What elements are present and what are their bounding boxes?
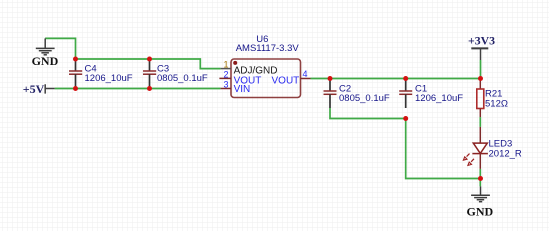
- capacitor C3: [143, 59, 208, 89]
- svg-text:4: 4: [303, 69, 308, 79]
- svg-text:VIN: VIN: [234, 84, 251, 95]
- svg-text:AMS1117-3.3V: AMS1117-3.3V: [236, 43, 300, 54]
- svg-text:2: 2: [224, 69, 229, 79]
- U6 pin 4 stub: [301, 78, 311, 80]
- port +3V3: [471, 47, 488, 49]
- wire C1 bottom to GND2: [406, 119, 481, 179]
- junction node C1 bottom: [403, 116, 408, 121]
- svg-text:1: 1: [224, 59, 229, 69]
- wire GND1 to C4 top: [45, 38, 75, 59]
- wire C2 bottom: [330, 108, 406, 119]
- junction node C3 bottom: [147, 86, 152, 91]
- LED LED3: [463, 127, 522, 169]
- svg-text:GND: GND: [32, 54, 59, 68]
- junction node LED3/GND2: [478, 176, 483, 181]
- junction node C3 top: [147, 57, 152, 62]
- junction node C2 top: [328, 76, 333, 81]
- svg-text:3: 3: [224, 79, 229, 89]
- junction node C4 top: [73, 57, 78, 62]
- svg-text:+5V: +5V: [23, 82, 45, 96]
- wire R21 to LED3: [479, 117, 481, 127]
- U6 pin1 marker dot: [233, 61, 237, 65]
- svg-text:0805_0.1uF: 0805_0.1uF: [339, 93, 390, 104]
- svg-text:1206_10uF: 1206_10uF: [415, 93, 463, 104]
- LED3 emission arrows: [467, 154, 470, 157]
- ground GND1 symbol: [36, 38, 55, 54]
- wire top rail GND net to pin1: [76, 59, 221, 69]
- U6 pin 3 stub: [221, 88, 231, 90]
- junction node +3V3/R21: [478, 76, 483, 81]
- junction node C1 top: [403, 76, 408, 81]
- ground GND2 symbol: [471, 186, 490, 201]
- wire bottom rail +5V to pin3: [55, 88, 221, 90]
- svg-text:VOUT: VOUT: [272, 75, 300, 86]
- capacitor C4: [69, 59, 133, 89]
- svg-text:1206_10uF: 1206_10uF: [85, 73, 133, 84]
- junction node C4 bottom: [73, 86, 78, 91]
- capacitor C2: [324, 79, 390, 109]
- regulator U6 body: [231, 59, 301, 98]
- U6 pin 1 stub: [221, 68, 231, 70]
- svg-text:512Ω: 512Ω: [485, 99, 508, 110]
- wire pin4 VOUT rail: [311, 78, 481, 80]
- svg-text:GND: GND: [467, 204, 494, 218]
- capacitor C1: [399, 79, 463, 109]
- wire +3V3 stem: [480, 60, 482, 79]
- U6 pin 2 stub: [219, 77, 231, 79]
- wire LED3 to GND2: [479, 169, 481, 187]
- resistor R21: [477, 79, 508, 118]
- svg-text:+3V3: +3V3: [468, 34, 495, 48]
- svg-text:2012_R: 2012_R: [489, 148, 522, 159]
- port +5V pin: [45, 84, 55, 93]
- svg-text:0805_0.1uF: 0805_0.1uF: [157, 73, 208, 84]
